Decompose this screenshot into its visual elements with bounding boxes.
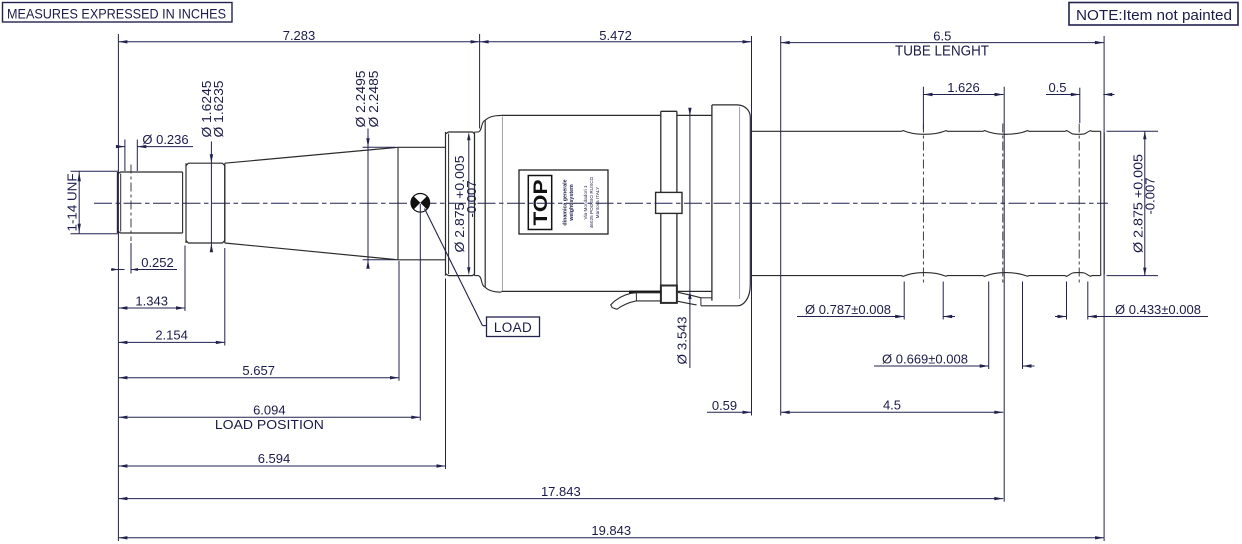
- note box: item not painted: [1069, 3, 1238, 26]
- taper cone: [225, 147, 398, 259]
- svg-text:17.843: 17.843: [541, 484, 581, 499]
- svg-text:7.283: 7.283: [283, 28, 316, 43]
- hole centerline Ø0.669: [1002, 124, 1004, 284]
- housing body Ø3.543: [485, 115, 712, 292]
- cable under end cap (right): [678, 292, 712, 306]
- dimension 7.283: [118, 28, 479, 43]
- cable exiting clamp (left): [611, 292, 662, 309]
- svg-text:2.154: 2.154: [155, 328, 188, 343]
- taper-cylinder junction line: [397, 147, 399, 259]
- extension line cone end: [398, 261, 400, 381]
- svg-text:Ø 0.669±0.008: Ø 0.669±0.008: [882, 352, 968, 367]
- svg-text:5.472: 5.472: [599, 28, 632, 43]
- dimension Ø0.433: [1055, 282, 1208, 320]
- pin hole hidden centerline (dashed): [130, 165, 132, 242]
- dimension Ø1.6245/Ø1.6235: [199, 80, 226, 252]
- collar cylinder Ø1.6245: [186, 163, 225, 243]
- svg-text:Ø 3.543: Ø 3.543: [675, 317, 690, 365]
- svg-text:Ø 1.6235: Ø 1.6235: [211, 80, 226, 137]
- extension line tube start: [780, 36, 782, 416]
- flange Ø2.875: [446, 132, 475, 276]
- svg-text:LOAD POSITION: LOAD POSITION: [215, 417, 324, 432]
- dimension 0.5: [1046, 80, 1115, 96]
- svg-text:NOTE:Item not painted: NOTE:Item not painted: [1076, 7, 1232, 24]
- clamp band: [661, 111, 677, 285]
- svg-text:Via Mondadori 1: Via Mondadori 1: [583, 185, 588, 219]
- svg-text:4.5: 4.5: [883, 398, 901, 413]
- svg-text:Ø 0.433±0.008: Ø 0.433±0.008: [1115, 302, 1201, 317]
- dimension 6.094 LOAD POSITION: [118, 403, 420, 432]
- svg-text:19.843: 19.843: [591, 523, 631, 538]
- dimension 17.843: [118, 484, 1003, 501]
- dimension Ø2.2495/Ø2.2485: [353, 71, 396, 269]
- dimension Ø2.875 right: [1107, 131, 1159, 275]
- dimension 2.154: [118, 328, 224, 345]
- svg-text:-0.007: -0.007: [1143, 178, 1158, 215]
- LOAD callout: [425, 209, 540, 337]
- svg-text:6.094: 6.094: [253, 403, 286, 418]
- svg-text:TOP: TOP: [531, 179, 552, 225]
- dimension 1-14 UNF: [65, 171, 120, 233]
- svg-text:MEASURES EXPRESSED IN INCHES: MEASURES EXPRESSED IN INCHES: [7, 6, 226, 21]
- svg-text:dinamica generale: dinamica generale: [563, 179, 569, 225]
- cylinder Ø2.2495: [398, 147, 446, 259]
- svg-text:TUBE LENGHT: TUBE LENGHT: [895, 44, 989, 60]
- svg-text:-0.007: -0.007: [464, 181, 479, 218]
- extension line hole2 long: [1003, 87, 1005, 502]
- dimension 0.252: [111, 243, 177, 274]
- svg-text:Mantova ITALY: Mantova ITALY: [595, 186, 600, 218]
- hole centerline Ø0.787: [922, 124, 924, 284]
- extension line collar end: [224, 248, 226, 346]
- svg-text:1.626: 1.626: [947, 80, 980, 95]
- extension line left datum: [117, 34, 119, 541]
- dimension 4.5: [781, 398, 1004, 415]
- svg-text:1.343: 1.343: [135, 293, 168, 308]
- extension line tube end: [1103, 36, 1105, 541]
- dimension 1.343: [118, 293, 185, 309]
- dimension 0.59: [707, 398, 752, 414]
- extension line thread end: [184, 246, 186, 312]
- label sticker TOP dinamica generale: [519, 170, 608, 234]
- dimension 19.843: [118, 523, 1104, 540]
- dimension 6.5 TUBE LENGHT: [781, 29, 1104, 60]
- extension line cap right face: [751, 36, 753, 416]
- clamp buckle: [656, 192, 682, 213]
- clamp screw block: [661, 286, 677, 303]
- dimension 5.657: [118, 363, 399, 380]
- extension line load position: [419, 204, 421, 421]
- end cap housing: [701, 105, 750, 306]
- svg-text:0.252: 0.252: [141, 255, 174, 270]
- svg-text:46025 POGGIO RUSCO: 46025 POGGIO RUSCO: [589, 176, 594, 228]
- threaded stud 1-14 UNF: [117, 172, 182, 233]
- svg-text:6.5: 6.5: [933, 29, 951, 44]
- note box: measures expressed in inches: [3, 3, 233, 23]
- svg-text:6.594: 6.594: [258, 451, 291, 466]
- extension line flange face: [445, 279, 447, 470]
- extension line hole3: [1079, 88, 1081, 123]
- svg-text:Ø 0.787±0.008: Ø 0.787±0.008: [805, 302, 891, 317]
- load point symbol: [411, 194, 430, 213]
- dimension Ø3.543: [675, 108, 692, 368]
- svg-text:0.59: 0.59: [712, 398, 737, 413]
- svg-text:LOAD: LOAD: [494, 320, 532, 335]
- hole centerline Ø0.433: [1078, 124, 1080, 284]
- dimension 1.626: [924, 80, 1004, 96]
- dimension 6.594: [118, 451, 445, 468]
- extension line flange step: [479, 34, 481, 129]
- part centerline (horizontal dash-dot): [94, 202, 1108, 204]
- svg-text:0.5: 0.5: [1048, 80, 1066, 95]
- svg-text:Ø 0.236: Ø 0.236: [142, 132, 188, 147]
- svg-text:1-14 UNF: 1-14 UNF: [65, 173, 80, 231]
- svg-text:Ø 2.2485: Ø 2.2485: [366, 71, 381, 128]
- dimension Ø0.787: [797, 282, 955, 320]
- tube Ø2.875 with break lines: [751, 131, 1104, 277]
- dimension Ø0.669: [874, 282, 1035, 370]
- svg-text:5.657: 5.657: [242, 363, 275, 378]
- dimension Ø0.236: [116, 132, 193, 171]
- neck transition curves: [475, 120, 486, 287]
- dimension 5.472: [480, 28, 752, 43]
- extension line hole1: [922, 87, 924, 130]
- dimension Ø2.875 left: [452, 132, 479, 275]
